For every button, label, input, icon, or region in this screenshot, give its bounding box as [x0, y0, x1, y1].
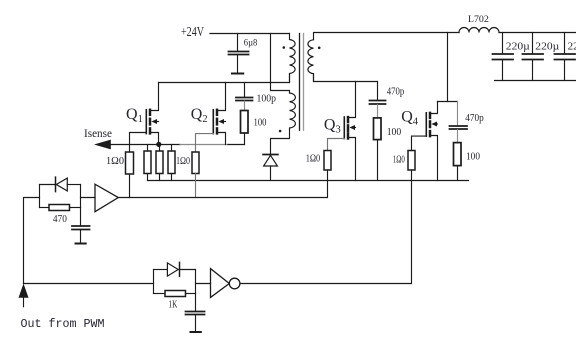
capacitor C 100p snubber Q1Q2	[236, 83, 276, 105]
svg-text:1K: 1K	[168, 300, 178, 311]
svg-text:220µ: 220µ	[506, 42, 530, 53]
wire output cap bottom rail	[495, 80, 576, 82]
wire inverter output to Q4 gate resistor	[240, 170, 412, 284]
svg-text:100p: 100p	[257, 94, 277, 105]
node phase dot secondary	[318, 47, 321, 50]
wire block1 right bar	[80, 185, 82, 208]
wire center-tap from +24V to lower primary	[271, 34, 290, 94]
wire Q3 gate lead	[328, 139, 345, 151]
resistor R4 1Ω0 parallel c	[168, 145, 190, 181]
diode D2 speedup inverter	[154, 262, 196, 276]
diode D1 speedup buffer	[40, 177, 81, 192]
wire PWM input vertical	[24, 198, 40, 284]
transistor Q3	[324, 82, 356, 181]
wire Isense arrow	[94, 140, 111, 150]
ground bar inverter cap	[191, 331, 201, 333]
capacitor C inverter input filter	[186, 294, 205, 332]
wire Q4 drain node	[438, 101, 458, 103]
svg-text:100: 100	[387, 127, 402, 138]
wire Q2 gate lead	[196, 134, 214, 152]
svg-text:Isense: Isense	[84, 126, 112, 140]
resistor R gate Q1 1Ω0	[126, 152, 134, 174]
node junction dot Q1 source	[156, 142, 161, 147]
wire Isense source rail	[111, 144, 180, 146]
diode D3 clamp	[263, 155, 278, 181]
resistor R 1K inverter input	[154, 291, 196, 311]
wire bottom return rail	[148, 180, 469, 182]
wire 470p to 100 Q4	[457, 130, 459, 143]
svg-text:470p: 470p	[465, 113, 484, 124]
svg-text:100: 100	[466, 152, 480, 163]
ground bar of 6µ8	[232, 73, 243, 75]
svg-text:1Ω0: 1Ω0	[176, 156, 190, 167]
capacitor C 470p snubber Q4	[450, 102, 484, 130]
resistor R 100 snubber Q4	[454, 143, 481, 166]
resistor R5 gate Q2	[192, 152, 199, 174]
wire r1 bottom to buffer output	[129, 174, 131, 198]
wire 100 to source rail	[244, 133, 246, 145]
wire block2 to inverter	[196, 283, 211, 285]
transformer T1 primary lower winding	[271, 93, 296, 154]
wire 100 Q4 to return rail	[457, 166, 459, 181]
resistor R gate Q4 1Ω0	[393, 151, 415, 171]
capacitor C input filter	[72, 208, 90, 244]
wire +24V rail	[210, 33, 290, 35]
wire block2 left bar	[153, 270, 155, 294]
resistor R 470 input	[40, 205, 81, 226]
transistor Q4	[401, 102, 437, 181]
wire 100 Q3 to return rail	[377, 140, 379, 181]
wire 470p to 100 Q3	[377, 105, 379, 118]
wire output rail after L702	[499, 32, 576, 34]
capacitor C 220µ second	[523, 33, 560, 81]
svg-text:220µ: 220µ	[535, 42, 559, 53]
wire r5 bottom to buffer output	[195, 174, 197, 198]
svg-text:22: 22	[568, 42, 576, 53]
wire secondary top to L702 node	[314, 33, 460, 40]
capacitor C 220µ third	[555, 33, 576, 81]
wire Q4 gate lead	[412, 136, 427, 150]
wire block2 right bar	[195, 270, 197, 294]
capacitor C 470p snubber Q3	[370, 82, 405, 105]
resistor R 100 snubber Q3	[374, 118, 402, 140]
wire drain rail Q1 Q2 to transformer	[159, 74, 290, 83]
inverter U2	[211, 269, 240, 298]
wire block1 left bar	[39, 185, 41, 208]
svg-text:1Ω0: 1Ω0	[306, 154, 321, 165]
transistor Q2	[191, 83, 226, 145]
wire Q1 gate lead	[130, 133, 147, 153]
capacitor C 6µ8	[229, 34, 258, 73]
svg-text:L702: L702	[468, 15, 489, 25]
resistor R2 1Ω0 parallel a	[144, 145, 151, 181]
transistor Q1	[126, 83, 159, 145]
svg-text:6µ8: 6µ8	[244, 38, 258, 48]
resistor R3 1Ω0 parallel b	[156, 145, 163, 181]
capacitor C 220µ first	[493, 33, 531, 81]
resistor R 100 snubber Q1Q2	[241, 111, 267, 134]
svg-text:470p: 470p	[387, 87, 405, 98]
svg-text:100: 100	[254, 117, 267, 128]
resistor R gate Q3 1Ω0	[306, 151, 331, 171]
transformer T1 primary top winding	[290, 34, 296, 83]
wire PWM input arrow	[19, 284, 29, 307]
ground bar input cap	[76, 243, 86, 245]
svg-text:Out from PWM: Out from PWM	[21, 317, 105, 331]
wire 100p to 100	[244, 101, 246, 111]
node phase dot primary lower	[279, 130, 282, 133]
op-amp buffer U1	[95, 184, 118, 212]
wire PWM to inverter block	[24, 283, 154, 285]
wire block1 to buffer	[81, 197, 96, 199]
transformer T1 secondary winding	[308, 40, 314, 82]
svg-text:470: 470	[53, 214, 67, 225]
wire Q4 drain to L702 node	[447, 33, 449, 102]
wire secondary bottom rail	[314, 74, 378, 82]
transformer T1 core	[299, 34, 301, 131]
wire buffer output to Q3 gate resistor	[118, 170, 327, 198]
svg-text:1Ω0: 1Ω0	[106, 156, 124, 167]
svg-text:1Ω0: 1Ω0	[393, 155, 405, 166]
svg-text:+24V: +24V	[181, 24, 204, 39]
node phase dot primary top	[283, 46, 286, 49]
inductor L702	[459, 15, 499, 33]
